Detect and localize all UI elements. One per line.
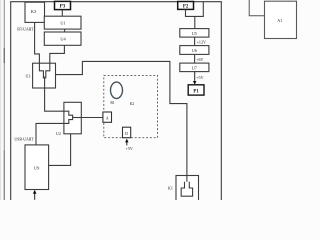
svg-text:U2: U2: [56, 131, 61, 136]
svg-text:U5: U5: [192, 31, 197, 36]
svg-text:B1: B1: [110, 101, 114, 105]
wire U7 to P1 with arrow: [193, 72, 196, 85]
wire U1 to U4: [64, 29, 66, 32]
svg-text:+12V: +12V: [197, 40, 206, 45]
svg-text:U3: U3: [26, 73, 31, 78]
enclosure border: [11, 2, 222, 200]
svg-text:A1: A1: [277, 18, 282, 23]
svg-text:K1: K1: [168, 185, 173, 190]
module U3: [26, 63, 56, 88]
scan page edge line: [3, 0, 5, 200]
module U9: [25, 145, 49, 190]
wire U4 to U3: [50, 45, 65, 63]
module K3: [25, 2, 45, 22]
module U5: [180, 29, 209, 37]
wire K3 to U3: [35, 22, 40, 63]
module U7: [180, 63, 209, 72]
connector P2: [178, 2, 194, 10]
connector K1: [168, 176, 199, 202]
module U4: [44, 32, 81, 45]
wire U3 right to K1 (long): [56, 61, 187, 175]
svg-text:P2: P2: [183, 4, 189, 9]
svg-text:U7: U7: [192, 65, 197, 70]
wire P3 to U1: [61, 10, 63, 17]
connector P3: [55, 1, 71, 9]
svg-text:+6V: +6V: [196, 57, 203, 62]
wire to antenna A1: [249, 0, 264, 16]
connector P1: [188, 85, 204, 95]
motor B1 ellipse: [111, 82, 123, 98]
diode box D: [123, 127, 131, 138]
svg-text:K3: K3: [31, 9, 37, 14]
svg-text:BT-UART: BT-UART: [17, 28, 34, 32]
wire U2 output to switch box: [81, 117, 103, 119]
module U6: [180, 46, 209, 55]
power arrow into D box: [125, 139, 128, 146]
svg-text:D: D: [125, 131, 128, 136]
wire U3 to U2 upper input: [45, 88, 64, 111]
svg-text:USB-UART: USB-UART: [14, 137, 34, 141]
svg-text:K2: K2: [130, 102, 135, 106]
power arrow into U9: [33, 190, 37, 200]
module U1: [44, 16, 81, 29]
svg-text:U4: U4: [60, 37, 66, 42]
svg-text:+5V: +5V: [196, 75, 203, 80]
module U2: [56, 102, 81, 136]
merge symbol inside U2: [64, 111, 81, 123]
svg-text:P3: P3: [60, 4, 66, 9]
wire U2 bottom to U9: [49, 134, 71, 166]
svg-text:A: A: [106, 116, 109, 121]
antenna module A1: [265, 1, 297, 38]
svg-text:U6: U6: [192, 48, 197, 53]
svg-text:+5V: +5V: [126, 146, 133, 151]
svg-text:U9: U9: [34, 166, 40, 171]
wire P2 to U5: [186, 2, 204, 29]
svg-text:U1: U1: [60, 21, 65, 26]
fork symbol inside U3: [39, 63, 49, 88]
wire U5 to U6: [194, 37, 196, 46]
switch box A: [103, 112, 112, 122]
plug symbol inside K1: [181, 176, 192, 197]
wire U9 to U2 lower input: [36, 123, 64, 144]
dashed box K2 circuit: [104, 75, 158, 137]
wire U6 to U7: [194, 54, 196, 63]
svg-text:P1: P1: [193, 90, 199, 95]
